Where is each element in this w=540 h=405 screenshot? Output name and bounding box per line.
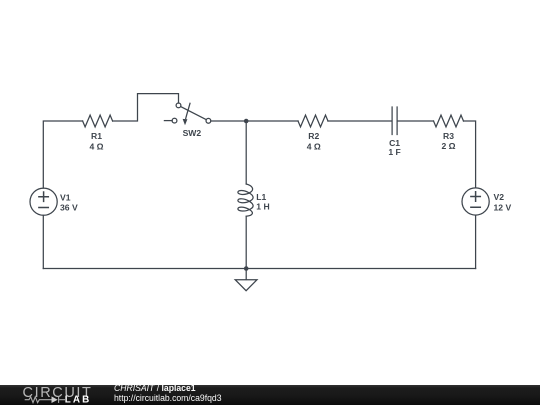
svg-text:V1: V1 (60, 193, 71, 203)
svg-text:1 H: 1 H (256, 202, 269, 212)
svg-text:SW2: SW2 (183, 128, 202, 138)
svg-text:R1: R1 (91, 131, 102, 141)
svg-text:R2: R2 (308, 131, 319, 141)
svg-text:1 F: 1 F (388, 147, 400, 157)
svg-text:12 V: 12 V (494, 203, 512, 213)
svg-text:R3: R3 (443, 131, 454, 141)
svg-text:36 V: 36 V (60, 202, 78, 212)
svg-text:4 Ω: 4 Ω (89, 142, 103, 152)
svg-text:4 Ω: 4 Ω (307, 142, 321, 152)
svg-text:L1: L1 (256, 192, 266, 202)
svg-text:2 Ω: 2 Ω (441, 141, 455, 151)
svg-text:V2: V2 (494, 192, 505, 202)
svg-text:LAB: LAB (65, 395, 92, 405)
